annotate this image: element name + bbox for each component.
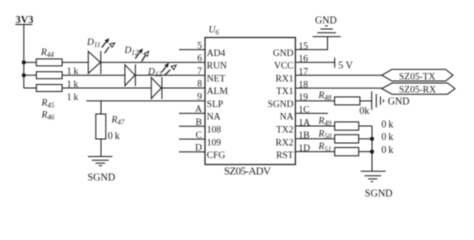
- svg-text:5 V: 5 V: [338, 60, 353, 71]
- svg-text:SGND: SGND: [268, 100, 294, 110]
- svg-text:0 k: 0 k: [381, 132, 393, 143]
- wire R51 to bus: [359, 151, 372, 153]
- svg-text:D13: D13: [147, 68, 162, 79]
- svg-text:D12: D12: [124, 46, 139, 57]
- pin 1A TX2: [276, 119, 310, 136]
- power 3V3: [15, 15, 33, 26]
- svg-text:1 k: 1 k: [67, 93, 79, 103]
- svg-text:18: 18: [299, 80, 309, 90]
- pin 15 GND: [273, 42, 308, 59]
- svg-text:NET: NET: [207, 74, 226, 84]
- wire 3V3 rail: [23, 25, 25, 89]
- svg-text:108: 108: [207, 126, 222, 136]
- pin C 109: [179, 131, 221, 149]
- pin 17 RX1: [276, 67, 309, 84]
- svg-text:1D: 1D: [299, 144, 311, 154]
- op-amp U6 chip body SZ05-ADV: [205, 26, 295, 178]
- svg-text:RUN: RUN: [207, 62, 227, 72]
- svg-text:R50: R50: [318, 129, 332, 140]
- svg-text:SZ05-RX: SZ05-RX: [399, 86, 436, 96]
- pin 9 SLP: [197, 93, 223, 111]
- wire pin1D to R51: [295, 151, 334, 153]
- svg-text:D: D: [195, 144, 202, 154]
- svg-text:NA: NA: [280, 113, 294, 123]
- resistor R49: [318, 117, 359, 131]
- resistor R45: [36, 72, 62, 110]
- wire bus to SGND: [371, 126, 373, 171]
- pin 8 ALM: [197, 80, 228, 98]
- svg-text:0k: 0k: [359, 106, 369, 117]
- node junction 1D bus: [370, 150, 374, 154]
- svg-text:R45: R45: [41, 99, 55, 110]
- wire D13 to pin8: [162, 87, 205, 89]
- svg-text:D11: D11: [86, 38, 100, 49]
- pin 19 SGND: [268, 93, 309, 110]
- node SZ05-RX: [382, 83, 455, 96]
- svg-text:RX1: RX1: [276, 74, 294, 84]
- svg-text:109: 109: [207, 138, 222, 148]
- svg-text:GND: GND: [388, 97, 410, 108]
- wire R46 to D13: [62, 87, 151, 89]
- wire pin18 to SZ05-RX: [295, 87, 381, 89]
- svg-text:1 k: 1 k: [67, 80, 79, 90]
- svg-text:1C: 1C: [299, 106, 310, 116]
- svg-text:R47: R47: [111, 116, 125, 127]
- node junction row6: [22, 60, 26, 64]
- wire rail to R44: [24, 61, 37, 63]
- resistor R44: [36, 48, 62, 66]
- pin 1D RST: [276, 144, 310, 161]
- wire R45 to D12: [62, 74, 125, 76]
- diode D11: [86, 38, 115, 74]
- wire D12 to pin7: [135, 74, 205, 76]
- svg-text:1A: 1A: [299, 119, 311, 129]
- svg-text:SZ05-ADV: SZ05-ADV: [224, 165, 271, 177]
- svg-text:R44: R44: [40, 48, 54, 59]
- ground SGND left: [88, 157, 116, 184]
- svg-text:9: 9: [197, 93, 202, 103]
- ground SGND right: [361, 171, 393, 199]
- svg-text:6: 6: [197, 54, 202, 64]
- svg-text:B: B: [196, 118, 202, 128]
- node junction row7: [22, 73, 26, 77]
- resistor R47: [96, 114, 125, 139]
- svg-text:ALM: ALM: [207, 87, 229, 97]
- pin 1C NA: [280, 106, 328, 123]
- resistor R51: [318, 142, 359, 156]
- svg-text:SZ05-TX: SZ05-TX: [399, 72, 436, 82]
- svg-text:RST: RST: [276, 151, 294, 161]
- pin 1B RX2: [276, 131, 310, 148]
- svg-text:U6: U6: [209, 26, 220, 37]
- resistor R50: [318, 129, 359, 143]
- pin 6 RUN: [197, 54, 227, 72]
- wire R47 to ground: [100, 139, 102, 157]
- svg-text:R46: R46: [41, 111, 55, 122]
- svg-text:TX2: TX2: [276, 126, 294, 136]
- wire R44 to D11: [62, 61, 88, 63]
- diode D13: [147, 63, 176, 99]
- svg-text:0 k: 0 k: [381, 145, 393, 156]
- svg-text:0 k: 0 k: [108, 131, 120, 142]
- wire R50 to bus: [359, 138, 372, 140]
- svg-text:GND: GND: [273, 49, 294, 59]
- svg-text:16: 16: [299, 55, 309, 65]
- pin D CFG: [179, 144, 225, 162]
- wire rail to R45: [24, 74, 37, 76]
- svg-text:R51: R51: [318, 142, 332, 153]
- wire pin16 to 5V: [295, 61, 334, 63]
- svg-text:17: 17: [299, 67, 309, 77]
- wire pin19 to R48: [295, 100, 334, 102]
- wire pin17 to SZ05-TX: [295, 74, 381, 76]
- svg-text:5: 5: [197, 41, 202, 51]
- pin B 108: [179, 118, 221, 136]
- wire pin15 to GND symbol: [295, 37, 327, 50]
- svg-text:1B: 1B: [299, 131, 310, 141]
- wire SLP drop to R47: [100, 101, 102, 114]
- power 5V: [335, 58, 354, 72]
- svg-text:A: A: [195, 105, 202, 115]
- pin 7 NET: [197, 67, 225, 85]
- wire SLP row pin9: [86, 100, 205, 102]
- svg-text:0 k: 0 k: [381, 119, 393, 130]
- wire rail to R46: [24, 87, 37, 89]
- wire pin1B to R50: [295, 138, 334, 140]
- svg-text:RX2: RX2: [276, 138, 294, 148]
- svg-text:R49: R49: [318, 117, 332, 128]
- pin 16 VCC: [274, 55, 308, 72]
- svg-text:SLP: SLP: [207, 100, 223, 110]
- svg-text:SGND: SGND: [365, 188, 393, 199]
- pin A NA: [179, 105, 221, 123]
- svg-text:GND: GND: [315, 15, 337, 26]
- ground GND top (inverted): [313, 15, 341, 36]
- svg-text:TX1: TX1: [276, 87, 294, 97]
- wire D11 to pin6: [101, 61, 205, 63]
- wire R48 to GND bars: [360, 100, 372, 102]
- diode D12: [124, 46, 149, 86]
- ground GND rotated: [372, 91, 410, 110]
- svg-text:7: 7: [197, 67, 202, 77]
- svg-text:AD4: AD4: [207, 49, 226, 59]
- svg-text:19: 19: [299, 93, 309, 103]
- pin 18 TX1: [276, 80, 308, 97]
- wire R49 to bus: [359, 125, 372, 127]
- pin 5 AD4: [179, 41, 226, 59]
- svg-text:VCC: VCC: [274, 62, 294, 72]
- svg-text:15: 15: [299, 42, 309, 52]
- svg-text:C: C: [196, 131, 202, 141]
- resistor R48: [318, 91, 360, 105]
- svg-text:NA: NA: [207, 113, 221, 123]
- wire pin1A to R49: [295, 125, 334, 127]
- svg-text:8: 8: [197, 80, 202, 90]
- node SZ05-TX: [382, 69, 453, 82]
- svg-text:SGND: SGND: [88, 173, 116, 184]
- svg-text:R48: R48: [318, 91, 332, 102]
- svg-text:CFG: CFG: [207, 151, 226, 161]
- resistor R46: [36, 85, 62, 122]
- node junction 1B bus: [370, 137, 374, 141]
